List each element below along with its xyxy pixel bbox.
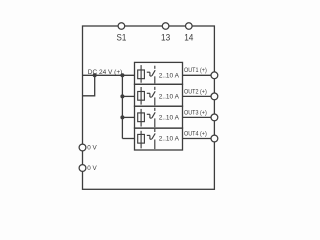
terminal OUT4	[211, 135, 218, 142]
svg-text:2..10 A: 2..10 A	[159, 94, 180, 101]
svg-text:OUT3 (+): OUT3 (+)	[184, 109, 207, 116]
fuse F4	[138, 131, 145, 149]
wire stub output ch4	[183, 138, 212, 140]
svg-text:13: 13	[161, 33, 170, 43]
wire DC 24V feed line	[83, 74, 135, 76]
wire branch vertical	[121, 75, 123, 138]
terminal OUT2	[211, 93, 218, 100]
svg-text:S1: S1	[117, 33, 127, 43]
terminal S1	[118, 23, 125, 30]
channel box ch4	[135, 128, 183, 150]
channel box ch1	[135, 62, 183, 84]
breaker contact ch1	[147, 66, 155, 84]
wire stub input ch2	[122, 95, 134, 97]
terminal 0V a	[79, 144, 86, 151]
terminal OUT1	[211, 72, 218, 79]
wire outer loop: top S1-13-14 bus, right output bus, bottom 0V return, left 0V bus	[83, 26, 215, 189]
breaker contact ch3	[147, 108, 155, 127]
fuse F3	[138, 109, 145, 127]
svg-text:OUT2 (+): OUT2 (+)	[184, 88, 207, 95]
breaker contact ch2	[147, 87, 155, 106]
wire stub input ch3	[122, 116, 134, 118]
svg-text:2..10 A: 2..10 A	[159, 72, 180, 79]
svg-text:0 V: 0 V	[87, 144, 97, 151]
wire stub input ch4	[122, 138, 134, 140]
channel box ch3	[135, 106, 183, 128]
node dot DC/loop	[93, 73, 97, 77]
breaker contact ch4	[147, 129, 155, 149]
terminal 13	[162, 23, 169, 30]
svg-text:2..10 A: 2..10 A	[159, 115, 180, 122]
svg-text:14: 14	[184, 33, 193, 43]
svg-text:OUT4 (+): OUT4 (+)	[184, 130, 207, 137]
svg-text:2..10 A: 2..10 A	[159, 136, 180, 143]
svg-text:OUT1 (+): OUT1 (+)	[184, 67, 207, 74]
node dot branch/ch3	[120, 115, 124, 119]
node dot DC/branch	[120, 73, 124, 77]
junction dots	[93, 73, 125, 119]
terminal OUT3	[211, 114, 218, 121]
wire stub output ch2	[183, 95, 212, 97]
svg-text:DC 24 V (+): DC 24 V (+)	[88, 69, 123, 76]
terminal 0V b	[79, 165, 86, 172]
labels	[117, 33, 194, 43]
terminal circles	[79, 23, 218, 172]
channel internals	[138, 65, 156, 149]
wire stub output ch1	[183, 74, 212, 76]
node dot branch/ch2	[120, 94, 124, 98]
wire stub output ch3	[183, 116, 212, 118]
channel box ch2	[135, 84, 183, 106]
internal supply loop	[83, 75, 95, 96]
fuse F1	[138, 65, 145, 83]
fuse F2	[138, 87, 145, 105]
svg-text:0 V: 0 V	[87, 165, 97, 172]
terminal 14	[186, 23, 193, 30]
